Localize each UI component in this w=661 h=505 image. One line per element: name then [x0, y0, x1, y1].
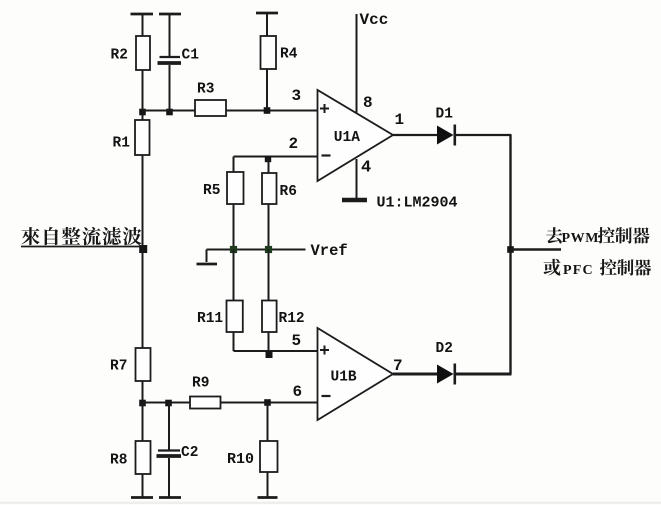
wire Vref rail left segment: [207, 249, 234, 251]
svg-text:6: 6: [293, 383, 303, 401]
resistor R12 body: [262, 301, 277, 333]
capacitor C2 top plate: [158, 449, 180, 451]
wire R12 top: [268, 250, 270, 301]
U1B plus input sign: [320, 346, 329, 355]
svg-text:Vref: Vref: [311, 242, 348, 260]
op-amp U1B triangle: [318, 328, 394, 420]
svg-text:R10: R10: [227, 451, 254, 468]
resistor R5 body: [227, 172, 244, 204]
capacitor C1 bottom plate: [158, 61, 182, 65]
wire C1 bottom: [169, 65, 171, 111]
label R11: [197, 311, 223, 327]
label pin 4: [361, 159, 371, 178]
wire node 5 to U1B pin 5: [234, 350, 318, 352]
svg-text:U1B: U1B: [331, 370, 357, 386]
input net label 来自整流滤波: [21, 227, 141, 245]
wire C2 bottom: [168, 458, 170, 497]
label R8: [110, 453, 127, 469]
resistor R7 body: [136, 348, 151, 381]
label Vcc: [360, 11, 389, 29]
wire pin 4 to ground: [356, 159, 358, 198]
svg-text:C2: C2: [181, 445, 198, 461]
resistor R3 body: [195, 100, 226, 116]
svg-text:U1A: U1A: [334, 130, 360, 146]
wire output stub: [511, 248, 562, 250]
capacitor C1 top plate: [160, 56, 181, 58]
terminal bar below C2: [159, 496, 181, 499]
label Vref: [311, 242, 348, 260]
svg-text:D2: D2: [436, 341, 453, 357]
wire R10 bottom: [267, 472, 269, 497]
label R7: [110, 359, 127, 375]
junction dot R4 on node 3 wire: [264, 107, 271, 114]
terminal bar above R4: [256, 12, 278, 15]
svg-text:R11: R11: [197, 311, 223, 327]
wire R11 top: [233, 250, 235, 301]
svg-text:D1: D1: [436, 107, 454, 123]
svg-text:R6: R6: [280, 184, 297, 200]
resistor R9 body: [190, 397, 221, 409]
wire C1 top: [169, 14, 171, 57]
resistor R2 body: [136, 36, 150, 70]
resistor R1 body: [135, 120, 150, 155]
wire R5 bottom to Vref rail: [233, 204, 235, 250]
output label 去PWM控制器 line 1: [546, 227, 649, 246]
label pin 1: [395, 111, 405, 129]
label U1:LM2904: [377, 195, 458, 212]
svg-text:R9: R9: [192, 376, 209, 392]
wire R8 top: [142, 403, 144, 442]
label pin 6: [293, 383, 303, 401]
wire R10 top: [267, 403, 269, 442]
wire R2 bottom: [142, 70, 144, 120]
junction dot R12 on pin 5 wire: [266, 351, 273, 358]
label R2: [111, 48, 128, 64]
wire Vref rail mid segment: [234, 249, 269, 251]
wire node A to R3: [143, 110, 196, 112]
wire Vref rail right segment: [269, 249, 306, 251]
wire C2 top: [168, 403, 170, 451]
svg-text:C1: C1: [182, 48, 200, 64]
svg-text:R3: R3: [197, 82, 214, 98]
label pin 8: [363, 94, 373, 112]
wire bottom node to R9: [143, 402, 191, 404]
svg-text:2: 2: [289, 135, 299, 153]
label pin 5: [292, 332, 302, 350]
svg-text:PWM: PWM: [562, 231, 600, 246]
label R4: [280, 47, 298, 63]
svg-text:U1:LM2904: U1:LM2904: [377, 195, 458, 212]
label R12: [279, 311, 305, 327]
U1B minus input sign: [322, 395, 331, 397]
junction dot C2 on bottom node: [165, 400, 172, 407]
junction dot R7/R8 node: [139, 400, 146, 407]
junction dot R6 on pin 2 wire: [265, 156, 271, 162]
wire input node down to R7: [142, 250, 144, 348]
junction dot R10 on pin 6 wire: [264, 399, 271, 406]
label D2: [436, 341, 453, 357]
junction dot C1 on node A: [166, 109, 173, 116]
wire R8 bottom: [142, 474, 144, 497]
svg-text:7: 7: [393, 357, 403, 375]
svg-text:R4: R4: [280, 47, 298, 63]
wire R7 bottom: [142, 381, 144, 403]
diode D1: [437, 125, 455, 146]
wire D2 cathode to right rail: [456, 373, 512, 376]
wire R6 bottom to Vref rail: [268, 204, 270, 250]
wire R4 top: [266, 13, 268, 36]
label R1: [113, 136, 131, 152]
U1A minus input sign: [322, 154, 331, 156]
wire R12 bottom: [268, 332, 270, 351]
capacitor C2 bottom plate: [157, 454, 182, 458]
terminal bar below R8: [131, 496, 153, 499]
wire D1 cathode to right rail: [456, 134, 512, 136]
label U1A: [334, 130, 360, 146]
junction dot R6/R12 on Vref rail: [265, 246, 272, 253]
wire R9 to U1B pin 6: [221, 402, 318, 404]
svg-text:4: 4: [361, 159, 371, 178]
diode D2: [437, 364, 455, 385]
svg-text:R7: R7: [110, 359, 127, 375]
input underline wire: [21, 246, 144, 248]
wire right rail: [509, 135, 511, 374]
svg-text:1: 1: [395, 111, 405, 129]
wire pin2 down to R5: [233, 157, 235, 173]
terminal bar below R10: [258, 496, 278, 499]
svg-text:PFC: PFC: [563, 263, 594, 278]
wire R1 bottom to input node: [142, 155, 144, 250]
svg-text:3: 3: [292, 87, 302, 105]
node A junction dot (R2/C1/R3): [139, 109, 146, 116]
label D1: [436, 107, 454, 123]
wire R2 top: [142, 14, 144, 36]
output label 或PFC控制器 line 2: [544, 259, 652, 278]
label C2: [181, 445, 198, 461]
resistor R8 body: [136, 441, 151, 474]
terminal bar above R2: [131, 13, 154, 16]
label pin 2: [289, 135, 299, 153]
resistor R11 body: [227, 301, 243, 333]
op-amp U1A triangle: [318, 90, 394, 181]
wire U1B output pin 7: [393, 373, 437, 376]
svg-text:Vcc: Vcc: [360, 11, 389, 29]
junction dot input node: [139, 245, 147, 253]
wire Vcc to pin 8: [356, 14, 358, 113]
svg-text:R8: R8: [110, 453, 127, 469]
terminal bar above C1: [159, 13, 181, 16]
resistor R4 body: [261, 36, 277, 69]
label R5: [203, 183, 220, 199]
label C1: [182, 48, 200, 64]
resistor R6 body: [262, 173, 277, 204]
svg-text:R5: R5: [203, 183, 220, 199]
wire R11 bottom: [233, 332, 235, 351]
label pin 3: [292, 87, 302, 105]
wire R4 bottom: [266, 69, 268, 111]
label U1B: [331, 370, 357, 386]
ground stub wire: [206, 250, 208, 263]
junction dot R5/R11 on Vref rail: [230, 246, 237, 253]
label R10: [227, 451, 254, 468]
label pin 7: [393, 357, 403, 375]
U1A plus input sign: [320, 104, 329, 113]
ground bar Vref: [197, 263, 218, 266]
label R6: [280, 184, 297, 200]
wire R3 to op-amp U1A pin 3: [226, 110, 318, 112]
svg-text:5: 5: [292, 332, 302, 350]
junction dot output node: [507, 246, 514, 253]
svg-text:R1: R1: [113, 136, 131, 152]
resistor R10 body: [260, 441, 278, 472]
scan artifact band at bottom: [0, 502, 661, 505]
svg-text:R2: R2: [111, 48, 128, 64]
wire R6 top: [268, 157, 270, 174]
wire U1A output pin 1: [393, 134, 437, 136]
wire U1A pin 2: [234, 156, 318, 158]
label R9: [192, 376, 209, 392]
label R3: [197, 82, 214, 98]
svg-text:R12: R12: [279, 311, 305, 327]
ground bar U1A pin 4: [342, 198, 367, 203]
svg-text:8: 8: [363, 94, 373, 112]
